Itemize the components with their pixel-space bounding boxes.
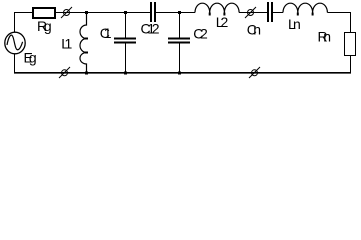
node C1 top [124,11,127,14]
node L1 bottom [85,72,88,75]
node L1 top [85,11,88,14]
source Eg [5,32,25,54]
capacitor C12 [150,2,152,22]
inductor Ln [283,3,327,12]
inductor L1 [80,13,87,74]
resistor Rn [345,33,356,56]
svg-text:C1: C1 [100,25,112,41]
node C2 bottom [178,72,181,75]
node C1 bottom [124,72,127,75]
svg-text:C12: C12 [141,21,160,37]
wire C1 to C12 [126,12,151,14]
inductor L2 [195,3,239,12]
probe (slashed circle) top-right [248,10,254,16]
wire Rg to L1 node [56,12,126,14]
wire L2 to Cn [239,12,267,14]
capacitor C1 [125,13,127,38]
svg-text:Rg: Rg [37,18,52,34]
wire bottom rail [14,72,351,74]
wire C2 node to L2 [180,12,196,14]
wire right vertical upper [350,12,352,33]
probe (slashed circle) top-left [64,10,70,16]
probe (slashed circle) bottom-left [62,70,68,76]
wire top-left horizontal [14,12,32,14]
wire left vertical upper [14,12,16,33]
resistor Rg [33,8,55,18]
capacitor C2 [179,13,181,38]
capacitor Cn [267,2,269,22]
svg-text:Cn: Cn [247,22,261,38]
svg-text:L2: L2 [216,14,229,30]
svg-text:Ln: Ln [288,16,301,32]
svg-text:L1: L1 [61,36,72,52]
wire Ln to corner [327,12,351,14]
svg-text:C2: C2 [193,25,208,41]
svg-text:Rn: Rn [318,29,332,45]
wire Cn to Ln [273,12,283,14]
svg-text:Eg: Eg [24,50,37,66]
wire left vertical lower [14,54,16,74]
wire right vertical lower [350,56,352,74]
wire C12 to C2 node [156,12,180,14]
probe (slashed circle) bottom-right [252,70,258,76]
node C2 top [178,11,181,14]
